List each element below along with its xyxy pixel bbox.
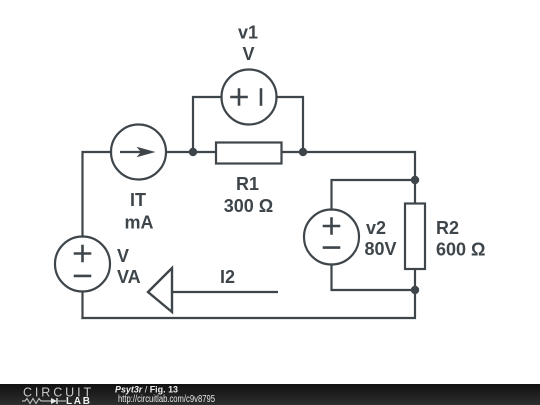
svg-text:R2: R2: [436, 218, 459, 238]
wire v1 left leg: [193, 97, 222, 152]
CircuitLab logo: [22, 385, 94, 405]
voltage source VA: [55, 237, 110, 292]
wire R1 right to right corner down to R2 top node: [282, 152, 416, 180]
svg-text:V: V: [117, 246, 129, 266]
resistor R2: [405, 204, 425, 270]
wire IT right to R1 left: [167, 151, 217, 153]
wire R2 bottom lead: [414, 269, 416, 290]
svg-text:mA: mA: [124, 213, 153, 233]
svg-text:300 Ω: 300 Ω: [224, 196, 273, 216]
current source IT: [111, 125, 166, 180]
svg-text:LAB: LAB: [66, 396, 92, 405]
svg-text:I2: I2: [220, 267, 235, 287]
current arrow I2: [148, 268, 278, 312]
wire v2 top branch: [332, 180, 416, 210]
wire v1 right leg: [277, 97, 304, 152]
svg-text:v1: v1: [238, 23, 258, 43]
footer credit text: [115, 385, 215, 405]
wire R2 top lead: [414, 180, 416, 204]
svg-text:IT: IT: [130, 190, 146, 210]
svg-text:80V: 80V: [365, 239, 397, 259]
svg-text:R1: R1: [236, 174, 259, 194]
wire VA bottom to bottom rail: [81, 292, 83, 319]
voltage source v2: [304, 210, 359, 265]
wire bottom rail: [83, 290, 416, 318]
resistor R1: [216, 143, 282, 164]
svg-text:VA: VA: [117, 267, 141, 287]
svg-text:V: V: [242, 44, 254, 64]
wire left rail top: IT left to corner down to VA top: [83, 152, 112, 237]
svg-text:http://circuitlab.com/c9v8795: http://circuitlab.com/c9v8795: [118, 394, 215, 405]
svg-text:600 Ω: 600 Ω: [436, 240, 485, 260]
wire v2 bottom branch: [332, 265, 416, 291]
node junction dots: [189, 148, 419, 294]
voltmeter v1: [222, 70, 277, 125]
svg-text:v2: v2: [366, 218, 386, 238]
